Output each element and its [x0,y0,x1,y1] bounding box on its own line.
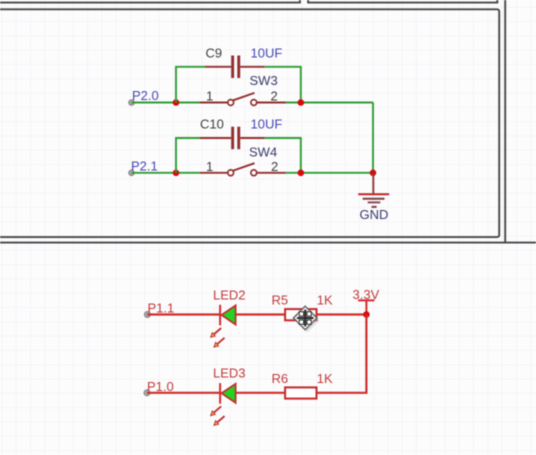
sheet border: lower sheet top edge [0,242,536,244]
switch SW4 pin 1 wire [200,172,228,174]
label R6 [272,371,289,386]
capacitor C9 pin 2 [240,66,264,68]
svg-text:2: 2 [271,159,278,174]
pin dot P2.1 [129,170,135,176]
pin number 2 (SW3) [271,89,278,104]
svg-text:10UF: 10UF [251,117,283,132]
switch SW4 pin 2 wire [257,172,286,174]
svg-text:SW4: SW4 [249,145,277,160]
svg-text:P1.0: P1.0 [147,379,174,394]
LED3 emission arrows [210,406,225,426]
wire P2.1 to SW4 pin 1 [132,172,201,174]
svg-text:P1.1: P1.1 [148,300,175,315]
node junction at P2.0 / C9 branch [173,99,180,106]
wire P1.0 to LED3 [147,392,220,394]
wire SW4 to GND rail [286,172,374,174]
svg-text:1: 1 [206,89,213,104]
pin number 1 (SW4) [206,159,213,174]
switch SW3 pin 2 wire [257,102,286,104]
wire C9 right branch [265,67,301,103]
switch SW3 [228,93,257,106]
svg-text:SW3: SW3 [250,73,278,88]
svg-text:C9: C9 [206,46,223,61]
wire LED2 to R5 [236,313,286,315]
wire P1.1 to LED2 [147,313,220,315]
svg-text:R6: R6 [272,371,289,386]
net label P1.1 [148,300,175,315]
node junction GND rail [370,170,377,177]
wire C9 left branch [176,67,205,103]
value 1K (R5) [317,293,333,308]
net label P2.0 [132,88,159,103]
sheet border: right sheet left edge [504,0,506,243]
label LED2 [213,288,246,303]
sheet border: upper-left sheet bottom edge [0,0,300,3]
move cursor over R5 [293,306,320,333]
switch SW3 pin 1 wire [200,102,228,104]
pin dot P1.1 [144,312,150,318]
sheet border: upper-right sheet bottom edge [308,0,497,3]
svg-text:1K: 1K [317,371,333,386]
LED2 [220,305,236,326]
wire C10 right branch [265,138,301,173]
label C9 [206,46,223,61]
pin number 2 (SW4) [271,159,278,174]
wire SW3 to right rail [286,102,374,104]
svg-text:GND: GND [360,207,389,222]
capacitor C10 pin 1 [200,137,231,139]
wire C10 left branch [176,138,200,173]
ground GND [358,173,389,207]
node junction SW4 right [298,170,305,177]
wire P2.0 to SW3 pin 1 [132,102,201,104]
label LED3 [213,366,246,381]
pin dot P2.0 [129,100,135,106]
value 10UF [251,46,283,61]
pin number 1 (SW3) [206,89,213,104]
svg-text:P2.0: P2.0 [132,88,159,103]
net label P1.0 [147,379,174,394]
svg-text:R5: R5 [272,293,289,308]
resistor R5 [285,309,316,320]
capacitor C9 pin 1 [205,66,231,68]
net label 3.3V [353,287,380,302]
svg-text:10UF: 10UF [251,46,283,61]
label SW3 [250,73,278,88]
LED3 [220,383,236,404]
svg-text:1K: 1K [317,293,333,308]
label C10 [200,117,224,132]
power symbol 3.3V [358,300,374,314]
wire right rail down [372,103,374,173]
svg-text:P2.1: P2.1 [131,159,158,174]
value 1K (R6) [317,371,333,386]
resistor R6 [285,387,316,398]
svg-text:1: 1 [206,159,213,174]
value 10UF (C10) [251,117,283,132]
svg-text:C10: C10 [200,117,224,132]
node junction SW3 right [298,99,305,106]
label R5 [272,293,289,308]
capacitor C9 [231,56,240,79]
pin dot P1.0 [144,390,150,396]
svg-text:3.3V: 3.3V [353,287,380,302]
LED2 emission arrows [210,328,225,348]
wire R5 to 3.3V rail [317,313,367,315]
svg-text:2: 2 [271,89,278,104]
capacitor C10 [231,127,240,150]
svg-text:LED2: LED2 [213,288,246,303]
node junction 3.3V [363,311,370,318]
svg-text:LED3: LED3 [213,366,246,381]
net label P2.1 [131,159,158,174]
sheet border: main top sheet frame [0,9,499,237]
wire LED3 to R6 [236,392,286,394]
node junction at P2.1 / C10 branch [173,170,180,177]
wire 3.3V rail down to R6 [317,315,367,393]
net label GND [360,207,389,222]
switch SW4 [228,163,257,176]
capacitor C10 pin 2 [240,137,264,139]
label SW4 [249,145,277,160]
